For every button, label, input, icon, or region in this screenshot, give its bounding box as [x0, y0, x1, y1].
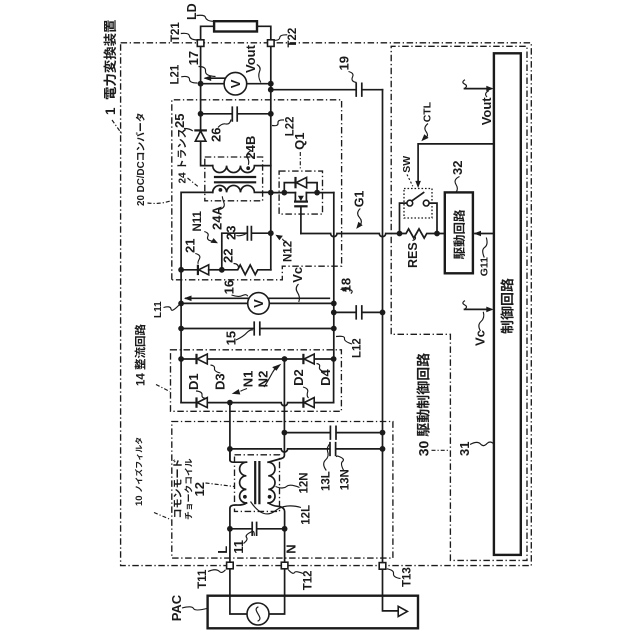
leader Q1 — [299, 152, 301, 170]
choke left bottom lead — [230, 503, 247, 562]
leader 20 — [148, 201, 172, 204]
junction (382.5,312.4) — [380, 310, 386, 316]
svg-text:T22: T22 — [287, 28, 299, 48]
svg-text:30: 30 — [415, 441, 431, 457]
leader L11 — [164, 305, 180, 311]
choke core — [255, 461, 259, 504]
wire rail L11/N11 — [180, 270, 182, 359]
leader T21 — [181, 33, 197, 40]
outer dashed box 1 (power conversion device) — [121, 43, 532, 566]
label drive circuit 32 text — [453, 210, 465, 260]
wire LD to T22 — [257, 26, 271, 40]
svg-text:25: 25 — [172, 114, 187, 128]
label common mode line1 — [173, 459, 182, 517]
leader Vc sense — [296, 284, 299, 302]
junction (284.3,192.6) — [281, 190, 287, 196]
leader G1 with arrow — [356, 209, 363, 229]
leader N2 with arrow — [264, 364, 281, 387]
leader PAC — [182, 607, 207, 610]
svg-text:T11: T11 — [197, 569, 209, 589]
bridge bottom rail — [181, 403, 334, 406]
wire L-line upper (N1 dot to choke) — [229, 449, 231, 460]
wire Q1 drain segment — [271, 192, 296, 194]
polarity dot 24A — [219, 188, 223, 192]
wire meter16 line — [181, 302, 334, 304]
svg-text:13L: 13L — [320, 471, 332, 491]
svg-text:V: V — [228, 79, 243, 88]
leader T22 — [274, 35, 287, 41]
wire 17 sense line — [206, 77, 226, 79]
svg-text:21: 21 — [183, 239, 198, 253]
box 20 DC/DC converter (stepped bottom) — [172, 100, 342, 280]
capacitor 13N — [330, 443, 336, 456]
choke right bottom lead — [268, 503, 284, 562]
Vc stub into control circuit — [463, 301, 494, 313]
zener diode 25 — [194, 130, 207, 141]
bridge right edge — [333, 359, 335, 403]
leader 12L — [251, 502, 302, 514]
diode D1 — [197, 397, 208, 407]
capacitor 18 — [356, 306, 362, 319]
leader 32 — [455, 177, 459, 192]
leader T13 — [387, 569, 401, 579]
svg-text:V: V — [251, 299, 266, 308]
box 24 transformer — [205, 157, 263, 201]
junction (200.6,113.8) — [198, 111, 204, 117]
leader G11 — [483, 238, 487, 258]
bridge left edge — [180, 359, 182, 403]
transformer 24 core — [214, 177, 256, 182]
junction (333.6,359) — [331, 356, 337, 362]
svg-text:17: 17 — [186, 51, 201, 65]
wire primary left lead — [181, 192, 213, 269]
leader 17 — [199, 67, 216, 77]
svg-text:D1: D1 — [186, 373, 201, 390]
Q1 body diode leads — [284, 183, 317, 193]
wire rail L22 (T22 down to corner 269.8) — [270, 46, 272, 269]
junction (270.8,113.8) — [268, 111, 274, 117]
leader N1 with arrow — [232, 389, 247, 395]
capacitor 15 — [254, 322, 260, 335]
svg-text:12L: 12L — [300, 505, 312, 525]
wire line to node18 vertical x382 upper — [382, 90, 384, 313]
leader Vout output — [257, 65, 261, 83]
wire V meter 17 line — [201, 83, 271, 85]
junction (221.8,269.8) — [219, 267, 225, 273]
LD load box — [214, 21, 257, 31]
transformer 24 primary winding 24A — [213, 185, 271, 192]
svg-text:G1: G1 — [352, 191, 366, 208]
leader D3 — [211, 365, 221, 373]
Q1 body diode — [296, 177, 307, 188]
svg-text:T13: T13 — [401, 567, 413, 587]
leader 11 — [244, 531, 255, 543]
capacitor 11 — [252, 523, 256, 536]
box 10 noise filter — [172, 422, 393, 559]
box 32 drive circuit — [445, 192, 473, 273]
svg-text:32: 32 — [450, 161, 465, 175]
junction (229.9,528.8) — [227, 526, 233, 532]
svg-text:Vc: Vc — [473, 330, 488, 346]
resistor RES zigzag — [400, 229, 445, 238]
junction (382.5,432.6) — [380, 430, 386, 436]
box SW (dotted) — [404, 189, 432, 219]
leader Vc2 — [479, 312, 484, 331]
box 14 rectifier circuit — [171, 350, 342, 412]
wire node18/L12 vertical — [333, 193, 335, 359]
wire cap19 line — [271, 89, 383, 91]
capacitor 13L — [330, 426, 336, 439]
svg-text:10: 10 — [134, 495, 145, 506]
wire SW right branch — [429, 203, 437, 233]
svg-text:31: 31 — [457, 442, 472, 456]
wire G1 rail with hops — [301, 234, 400, 237]
junction (270.8,89.7) — [268, 87, 274, 93]
capacitor 26 — [232, 107, 237, 121]
leader 24A — [220, 196, 225, 209]
svg-text:G11: G11 — [478, 257, 490, 276]
wire cap18 line — [334, 311, 383, 313]
wire snubber node up — [222, 233, 271, 270]
wire rail L21 lower (zener to secondary corner) — [201, 141, 213, 165]
transformer 24 secondary winding 24B — [213, 166, 271, 173]
arrow CTL down — [415, 181, 421, 188]
svg-text:CTL: CTL — [421, 101, 433, 122]
label control circuit 31 text — [500, 278, 513, 334]
svg-text:11: 11 — [231, 540, 246, 554]
arrow G11 — [474, 231, 481, 237]
leader 21 — [195, 254, 200, 264]
svg-text:PAC: PAC — [169, 594, 184, 621]
wire N2 vertical down (with hop of 13N line) — [268, 359, 284, 462]
svg-text:L12: L12 — [352, 338, 364, 358]
leader 1 — [112, 120, 123, 135]
leader 12N — [276, 485, 300, 488]
svg-text:24B: 24B — [243, 136, 258, 160]
junction (181.1,328.5) — [178, 326, 184, 332]
leader N12 with arrow — [275, 235, 286, 242]
resistor 22 zigzag — [222, 265, 271, 275]
voltmeter 16 — [248, 293, 270, 315]
junction (437,233.5) — [434, 231, 440, 237]
svg-text:D4: D4 — [318, 369, 333, 386]
svg-text:1: 1 — [103, 107, 118, 115]
ground arrow in PAC — [398, 606, 407, 616]
leader 25 — [184, 129, 193, 132]
svg-text:Vout: Vout — [243, 44, 258, 73]
svg-text:16: 16 — [222, 280, 237, 294]
voltmeter 17 — [224, 72, 247, 95]
svg-text:N12: N12 — [282, 241, 294, 262]
leader 12 — [206, 483, 235, 487]
svg-text:N1: N1 — [240, 371, 255, 388]
svg-text:L11: L11 — [153, 301, 164, 318]
junction (270.8,83.7) — [268, 81, 274, 87]
wire cap15 line — [181, 328, 334, 330]
wire SW left branch — [400, 203, 407, 233]
junction (181.1,359) — [178, 356, 184, 362]
leader RES — [413, 237, 416, 241]
leader CTL with arrow — [421, 124, 428, 142]
junction (181.1,269.8) — [178, 267, 184, 273]
svg-text:D2: D2 — [291, 369, 306, 386]
wire T21 to LD — [201, 26, 215, 40]
diode D2 — [303, 397, 314, 407]
svg-text:N: N — [283, 544, 298, 553]
AC source circle — [247, 603, 269, 625]
terminal T13 — [379, 563, 386, 570]
choke polarity dots — [243, 495, 247, 499]
leader L12 — [336, 336, 352, 344]
wire 16 sense line left — [186, 297, 249, 299]
choke left winding — [240, 462, 247, 503]
polarity dot 24B — [246, 166, 250, 170]
leader 10 — [154, 513, 171, 520]
junction (229.9,402.6) — [227, 400, 233, 406]
leader D1 — [196, 391, 205, 398]
label common mode line2 — [184, 459, 192, 520]
wire T11 to PAC source — [230, 569, 247, 614]
wire cap11 line — [230, 528, 285, 530]
leader 14 — [156, 385, 170, 392]
box 31 control circuit — [494, 53, 521, 555]
wire cap26 line — [201, 113, 271, 115]
svg-text:D3: D3 — [213, 373, 228, 390]
leader L21 — [181, 76, 197, 83]
svg-text:15: 15 — [224, 331, 239, 345]
leader SW dotted — [407, 175, 413, 187]
switch SW contacts — [407, 193, 429, 206]
junction (181.1,303.4) — [178, 301, 184, 307]
diode 21 — [181, 265, 222, 275]
leader 24 — [188, 178, 199, 187]
leader 30 — [432, 449, 450, 451]
wire N1 vertical down — [230, 403, 247, 463]
junction (399.5,233.5) — [397, 231, 403, 237]
leader 16 — [232, 295, 248, 297]
choke right winding — [268, 462, 275, 503]
box 12 common-mode choke — [235, 455, 280, 512]
svg-text:N11: N11 — [192, 210, 204, 231]
svg-text:19: 19 — [337, 56, 352, 70]
terminal T21 — [197, 40, 204, 47]
wire G11 arrow line — [475, 233, 494, 235]
svg-text:14: 14 — [135, 373, 147, 386]
leader T12 — [288, 570, 303, 574]
svg-text:26: 26 — [209, 128, 224, 142]
Q1 gate lead — [300, 206, 302, 233]
svg-text:23: 23 — [224, 226, 239, 240]
svg-text:SW: SW — [401, 156, 413, 173]
wire rail L21 upper (T21 down to zener) — [200, 46, 202, 130]
Q1 MOSFET channel — [294, 193, 308, 207]
leader 24B — [247, 151, 252, 165]
PAC box — [208, 596, 418, 629]
svg-text:L: L — [215, 546, 230, 554]
leader 13N — [336, 456, 343, 470]
Vout stub into control circuit — [463, 80, 494, 92]
svg-text:T12: T12 — [302, 570, 314, 590]
junction (382.5,448.9) — [380, 446, 386, 452]
leader D4 — [317, 364, 326, 373]
svg-text:24: 24 — [178, 172, 189, 184]
leader 15 — [236, 330, 253, 340]
junction (229.9,448.9) — [227, 446, 233, 452]
svg-text:20 DC/DC: 20 DC/DC — [136, 161, 147, 206]
wire T13 line — [383, 449, 398, 611]
svg-text:13N: 13N — [340, 469, 352, 490]
junction (284.5,359) — [282, 356, 288, 362]
junction (284.6,528.8) — [282, 526, 288, 532]
leader LD — [197, 15, 214, 21]
svg-text:Q1: Q1 — [292, 132, 307, 149]
bridge top rail — [181, 358, 334, 360]
svg-text:24A: 24A — [210, 206, 225, 230]
leader N11 with arrow — [204, 232, 218, 244]
junction (333.8,303.4) — [331, 301, 337, 307]
svg-text:T21: T21 — [170, 22, 182, 42]
capacitor 23 — [247, 227, 251, 240]
svg-text:22: 22 — [221, 249, 236, 263]
wire CTL — [418, 144, 494, 184]
terminal T12 — [281, 562, 288, 569]
box Q1 — [279, 171, 322, 214]
terminal T22 — [268, 40, 275, 47]
junction (333.8,312.4) — [331, 310, 337, 316]
terminal T11 — [227, 562, 234, 569]
diode D3 — [197, 354, 208, 364]
wire T12 to PAC source — [269, 569, 285, 614]
junction (284.4,432.6) — [282, 430, 288, 436]
svg-text:Vout: Vout — [479, 97, 494, 126]
diode D4 — [303, 354, 314, 364]
svg-text:Vc: Vc — [290, 267, 305, 283]
svg-text:LD: LD — [185, 3, 199, 20]
leader 13L — [324, 444, 330, 471]
leader 18 with arrow — [340, 287, 352, 294]
leader 31 — [470, 442, 493, 446]
junction (270.8,192.6) — [268, 190, 274, 196]
svg-text:RES: RES — [406, 242, 420, 268]
leader T11 — [208, 570, 226, 573]
svg-text:12N: 12N — [299, 472, 311, 493]
leader 19 — [349, 72, 357, 83]
wire 16 sense line right — [268, 297, 329, 299]
junction (333.8,328.5) — [331, 326, 337, 332]
wire 13L line — [284, 432, 382, 434]
leader 26 — [218, 120, 231, 128]
junction (270.8,233.2) — [268, 230, 274, 236]
arrow 16 sense — [184, 296, 192, 302]
leader Vout2 — [486, 91, 489, 97]
leader L22 — [272, 120, 284, 126]
svg-text:L21: L21 — [170, 64, 182, 84]
capacitor 19 — [356, 83, 362, 96]
junction (317.1,192.6) — [314, 190, 320, 196]
box 30 drive control circuit (L-shaped) — [391, 46, 527, 560]
leader D2 — [303, 387, 309, 398]
arrow 17 sense — [204, 75, 212, 81]
wire x382 mid vertical — [382, 312, 384, 449]
leader 22 — [234, 264, 239, 269]
svg-text:12: 12 — [192, 482, 207, 496]
leader 23 — [237, 234, 246, 236]
wire 13N line with hop — [230, 449, 383, 452]
wire Q1 source segment — [306, 192, 333, 194]
junction (200.6,83.7) — [198, 81, 204, 87]
